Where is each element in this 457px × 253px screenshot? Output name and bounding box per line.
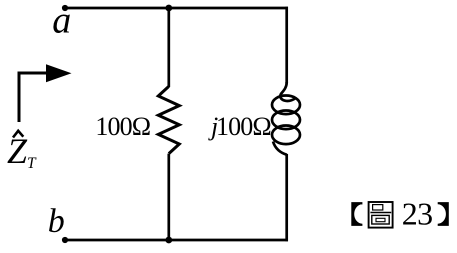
resistor value label 100ohm <box>95 112 150 141</box>
inductor j100ohm coil <box>272 82 300 155</box>
node label a <box>52 0 71 41</box>
label Z_T with hat <box>7 131 37 172</box>
svg-text:j100Ω: j100Ω <box>208 112 271 141</box>
wire top (a to top-right corner) <box>65 7 288 10</box>
wire bottom (b to bottom-right corner) <box>65 239 288 242</box>
node label b <box>48 203 65 240</box>
junction bottom node <box>165 237 172 244</box>
terminal a <box>62 5 68 11</box>
svg-text:T: T <box>27 155 37 172</box>
figure caption bracket left <box>351 202 362 226</box>
wire right branch bottom <box>285 154 288 241</box>
wire right branch top <box>285 7 288 83</box>
terminal b <box>62 237 68 243</box>
figure caption character tu (drawing) <box>369 202 393 228</box>
arrow ZT looking-in impedance arrow <box>19 64 72 122</box>
svg-text:a: a <box>52 0 71 41</box>
svg-text:100Ω: 100Ω <box>95 112 150 141</box>
svg-text:b: b <box>48 203 65 240</box>
wire resistor branch bottom <box>167 154 170 240</box>
figure caption number 23 <box>402 196 433 232</box>
inductor value label j100ohm <box>208 112 271 141</box>
svg-text:Z: Z <box>7 131 28 171</box>
svg-text:23: 23 <box>402 196 433 232</box>
junction top node <box>165 5 172 12</box>
resistor 100ohm zigzag <box>158 86 179 153</box>
figure caption bracket right <box>438 202 449 226</box>
wire resistor branch top <box>167 8 170 87</box>
